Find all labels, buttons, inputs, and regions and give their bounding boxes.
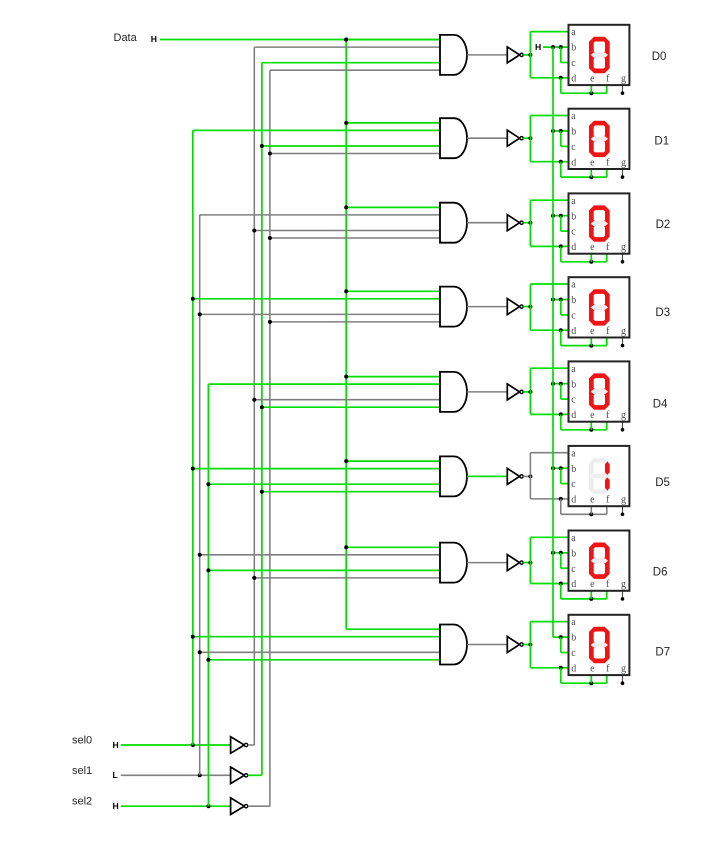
wire nsel1 input to gate U0 xyxy=(262,62,440,64)
wire channel 4 pin f stub xyxy=(606,422,608,430)
svg-text:d: d xyxy=(571,73,576,84)
junction pin g terminal D2 xyxy=(621,260,625,264)
svg-text:g: g xyxy=(621,157,626,168)
wire channel 0 d to bottom loop xyxy=(560,78,562,93)
wire channel 3 to pin d xyxy=(530,329,569,331)
wire nsel0 input to gate U2 xyxy=(254,230,440,232)
wire channel 4 pin e stub xyxy=(590,422,592,430)
digit segments D4 xyxy=(589,373,610,409)
junction pin g terminal D1 xyxy=(621,175,625,179)
junction data rail at gate U4 xyxy=(344,375,348,379)
junction pin g terminal D7 xyxy=(621,681,625,685)
wire display D6 pin g stub (unconnected) xyxy=(622,591,624,599)
wire gate U1 output to inverter xyxy=(467,137,507,139)
AND gate U5 xyxy=(440,456,467,496)
wire sel0 vertical rail xyxy=(192,130,194,745)
wire channel 7 to pin c xyxy=(561,652,570,654)
wire channel 7 to pin a xyxy=(530,621,569,623)
svg-text:c: c xyxy=(571,395,576,406)
wire channel 4 to pin a xyxy=(530,367,569,369)
wire not-sel1 inverter output elbow xyxy=(248,774,262,776)
wire channel 6 b to c loop xyxy=(560,553,562,568)
wire inverter U3N output xyxy=(523,306,530,308)
junction channel 7 d branch xyxy=(559,666,563,670)
svg-text:d: d xyxy=(571,663,576,674)
junction sel0 rail at gate U5 xyxy=(191,467,195,471)
svg-text:Data: Data xyxy=(114,32,138,44)
wire channel 7 pin f stub xyxy=(606,675,608,683)
AND gate U4 xyxy=(440,372,467,412)
junction sel1 rail bottom xyxy=(198,773,202,777)
wire segment rail to pin b D2 xyxy=(553,215,570,217)
junction channel 3 d branch xyxy=(559,328,563,332)
wire channel 5 pin f stub xyxy=(606,506,608,514)
wire nsel1 vertical rail xyxy=(261,63,263,776)
wire sel2 input to gate U6 xyxy=(208,569,440,571)
AND gate U1 xyxy=(440,118,467,158)
wire sel0 horizontal to inverter xyxy=(121,744,231,746)
svg-text:H: H xyxy=(151,34,157,44)
junction nsel0 rail at gate U6 xyxy=(252,576,256,580)
wire inverter U6N output xyxy=(523,562,530,564)
svg-text:d: d xyxy=(571,495,576,506)
wire channel 3 pin f stub xyxy=(606,338,608,346)
wire not-sel0 inverter output elbow xyxy=(248,744,255,746)
wire nsel0 input to gate U0 xyxy=(254,46,440,48)
AND gate U7 xyxy=(440,625,467,665)
wire segment rail to pin b D7 xyxy=(553,636,570,638)
wire segment rail to pin b D5 xyxy=(553,467,570,469)
wire sel2 input to gate U5 xyxy=(208,483,440,485)
wire nsel2 input to gate U1 xyxy=(270,153,440,155)
wire segment rail vertical xyxy=(552,47,554,637)
junction channel 2 d branch xyxy=(559,244,563,248)
wire channel 3 pin e stub xyxy=(590,338,592,346)
wire channel 5 bottom horizontal xyxy=(561,513,607,515)
inverter U2N xyxy=(507,215,523,231)
svg-text:D4: D4 xyxy=(653,399,668,411)
junction channel 3 pin e xyxy=(589,344,593,348)
junction segment rail at D5 xyxy=(551,466,555,470)
svg-text:g: g xyxy=(621,663,626,674)
wire channel 2 vertical a-d xyxy=(529,200,531,246)
wire display D1 pin g stub (unconnected) xyxy=(622,169,624,177)
junction sel2 rail at gate U6 xyxy=(206,568,210,572)
wire channel 6 pin f stub xyxy=(606,591,608,599)
wire sel1 input to gate U7 xyxy=(200,651,440,653)
junction channel 6 d branch xyxy=(559,582,563,586)
wire channel 1 b to c loop xyxy=(560,131,562,146)
wire inverter U7N output xyxy=(523,644,530,646)
svg-text:b: b xyxy=(571,548,576,559)
wire channel 5 pin e stub xyxy=(590,506,592,514)
junction channel 5 output node xyxy=(528,474,532,478)
svg-text:D6: D6 xyxy=(653,567,668,579)
junction channel 6 pin e xyxy=(589,597,593,601)
junction segment rail at D6 xyxy=(551,551,555,555)
svg-text:H: H xyxy=(113,801,119,811)
wire data input to gate U2 xyxy=(346,206,440,208)
svg-text:c: c xyxy=(571,142,576,153)
AND gate U6 xyxy=(440,543,467,583)
svg-text:b: b xyxy=(571,633,576,644)
digit segments D1 xyxy=(589,121,610,157)
wire channel 1 d to bottom loop xyxy=(560,162,562,177)
junction data rail at gate U1 xyxy=(344,121,348,125)
wire channel 5 d to bottom loop xyxy=(560,499,562,514)
display D6 seven-segment xyxy=(569,531,630,591)
junction nsel1 rail at gate U4 xyxy=(260,405,264,409)
wire segment rail to pin b D4 xyxy=(553,383,570,385)
display D2 seven-segment xyxy=(569,193,630,253)
junction channel 0 output node xyxy=(528,53,532,57)
svg-text:b: b xyxy=(571,379,576,390)
svg-text:c: c xyxy=(571,311,576,322)
wire channel 3 vertical a-d xyxy=(529,284,531,330)
wire nsel1 input to gate U5 xyxy=(262,491,440,493)
wire nsel2 input to gate U2 xyxy=(270,237,440,239)
display D0 seven-segment xyxy=(569,25,630,85)
wire nsel2 input to gate U0 xyxy=(270,69,440,71)
junction channel 7 output node xyxy=(528,643,532,647)
svg-text:g: g xyxy=(621,495,626,506)
junction sel2 rail at gate U5 xyxy=(206,482,210,486)
wire data input to gate U0 xyxy=(346,39,440,41)
svg-text:b: b xyxy=(571,464,576,475)
wire sel1 horizontal to inverter xyxy=(121,774,231,776)
wire channel 7 pin e stub xyxy=(590,675,592,683)
svg-text:e: e xyxy=(590,495,595,506)
wire channel 2 pin f stub xyxy=(606,254,608,262)
wire gate U0 output to inverter xyxy=(467,54,507,56)
wire nsel0 input to gate U6 xyxy=(254,577,440,579)
wire gate U4 output to inverter xyxy=(467,391,507,393)
wire channel 3 to pin c xyxy=(561,314,570,316)
wire sel1 vertical rail xyxy=(199,215,201,775)
wire sel1 input to gate U2 xyxy=(200,214,440,216)
junction channel 4 d branch xyxy=(559,412,563,416)
wire sel2 horizontal to inverter xyxy=(121,805,231,807)
wire channel 4 bottom horizontal xyxy=(561,429,607,431)
svg-text:d: d xyxy=(571,326,576,337)
wire channel 1 to pin a xyxy=(530,115,569,117)
junction channel 1 d branch xyxy=(559,160,563,164)
display D1 seven-segment xyxy=(569,109,630,169)
svg-text:D1: D1 xyxy=(654,135,669,147)
junction sel1 rail at gate U6 xyxy=(198,553,202,557)
wire sel0 input to gate U7 xyxy=(193,636,440,638)
junction segment rail top xyxy=(551,45,555,49)
svg-text:b: b xyxy=(571,211,576,222)
wire sel2 vertical rail xyxy=(207,384,209,806)
wire data input to gate U5 xyxy=(346,460,440,462)
svg-text:c: c xyxy=(571,648,576,659)
junction channel 4 output node xyxy=(528,390,532,394)
wire sel1 input to gate U6 xyxy=(200,554,440,556)
wire display D0 pin g stub (unconnected) xyxy=(622,85,624,93)
wire gate U7 output to inverter xyxy=(467,644,507,646)
junction nsel2 rail at gate U1 xyxy=(268,152,272,156)
svg-text:a: a xyxy=(571,364,576,375)
digit segments D3 xyxy=(589,289,610,325)
svg-text:D3: D3 xyxy=(655,307,670,319)
svg-text:d: d xyxy=(571,157,576,168)
wire sel1 input to gate U3 xyxy=(200,313,440,315)
wire data input to gate U3 xyxy=(346,290,440,292)
junction channel 0 d branch xyxy=(559,76,563,80)
wire channel 6 d to bottom loop xyxy=(560,584,562,599)
svg-text:e: e xyxy=(590,410,595,421)
wire channel 7 bottom horizontal xyxy=(561,682,607,684)
junction sel0 rail at gate U7 xyxy=(191,635,195,639)
wire channel 2 bottom horizontal xyxy=(561,261,607,263)
wire channel 3 d to bottom loop xyxy=(560,330,562,345)
junction sel0 rail at gate U3 xyxy=(191,297,195,301)
wire channel 3 to pin a xyxy=(530,283,569,285)
junction nsel1 rail at gate U1 xyxy=(260,144,264,148)
wire channel 2 pin e stub xyxy=(590,254,592,262)
junction channel 3 output node xyxy=(528,305,532,309)
display D4 seven-segment xyxy=(569,361,630,421)
wire channel 0 pin e stub xyxy=(590,85,592,93)
wire segment rail to pin b D6 xyxy=(553,552,570,554)
display D5 seven-segment xyxy=(569,446,630,506)
svg-text:b: b xyxy=(571,295,576,306)
svg-text:b: b xyxy=(571,127,576,138)
wire channel 7 b to c loop xyxy=(560,637,562,652)
junction segment rail at D2 xyxy=(551,214,555,218)
inverter U9 for sel0 xyxy=(231,737,248,754)
inverter U5N xyxy=(507,468,523,484)
wire inverter U2N output xyxy=(523,222,530,224)
wire inverter U1N output xyxy=(523,137,530,139)
display D3 seven-segment xyxy=(569,277,630,337)
wire channel 7 to pin d xyxy=(530,667,569,669)
junction Data rail top xyxy=(344,38,348,42)
svg-text:sel0: sel0 xyxy=(72,735,92,747)
junction channel 6 output node xyxy=(528,561,532,565)
wire display D4 pin g stub (unconnected) xyxy=(622,422,624,430)
junction data rail at gate U5 xyxy=(344,459,348,463)
wire sel0 input to gate U1 xyxy=(193,129,440,131)
wire channel 5 vertical a-d xyxy=(529,453,531,499)
junction channel 4 b branch xyxy=(559,382,563,386)
wire channel 4 to pin c xyxy=(561,398,570,400)
svg-text:D2: D2 xyxy=(656,219,671,231)
wire channel 6 to pin d xyxy=(530,583,569,585)
digit segments D2 xyxy=(589,205,610,241)
wire gate U2 output to inverter xyxy=(467,222,507,224)
wire channel 2 to pin a xyxy=(530,199,569,201)
wire channel 0 to pin c xyxy=(561,62,570,64)
wire channel 4 d to bottom loop xyxy=(560,414,562,429)
svg-text:g: g xyxy=(621,326,626,337)
wire nsel0 input to gate U4 xyxy=(254,399,440,401)
junction segment rail at D1 xyxy=(551,129,555,133)
junction nsel2 rail at gate U2 xyxy=(268,236,272,240)
wire data input to gate U7 xyxy=(346,628,440,630)
junction data rail at gate U0 xyxy=(344,38,348,42)
wire nsel2 vertical rail xyxy=(269,70,271,806)
junction channel 2 b branch xyxy=(559,214,563,218)
junction nsel2 rail at gate U3 xyxy=(268,320,272,324)
wire channel 6 to pin c xyxy=(561,567,570,569)
svg-text:e: e xyxy=(590,326,595,337)
digit segments D7 xyxy=(589,627,610,663)
junction nsel0 rail at gate U2 xyxy=(252,229,256,233)
svg-text:a: a xyxy=(571,448,576,459)
svg-text:d: d xyxy=(571,579,576,590)
wire channel 1 bottom horizontal xyxy=(561,176,607,178)
wire inverter U0N output xyxy=(523,54,530,56)
junction sel1 rail at gate U3 xyxy=(198,312,202,316)
junction channel 6 b branch xyxy=(559,551,563,555)
wire channel 2 d to bottom loop xyxy=(560,246,562,261)
junction sel2 rail bottom xyxy=(206,804,210,808)
wire channel 5 to pin c xyxy=(561,483,570,485)
wire channel 7 d to bottom loop xyxy=(560,668,562,683)
wire inverter U5N output xyxy=(523,475,530,477)
svg-text:a: a xyxy=(571,280,576,291)
wire channel 7 vertical a-d xyxy=(529,622,531,668)
svg-text:g: g xyxy=(621,73,626,84)
junction sel0 rail bottom xyxy=(191,743,195,747)
junction sel1 rail at gate U7 xyxy=(198,650,202,654)
junction channel 7 pin e xyxy=(589,681,593,685)
junction pin g terminal D6 xyxy=(621,597,625,601)
wire channel 2 to pin d xyxy=(530,245,569,247)
wire data input to gate U4 xyxy=(346,376,440,378)
digit segments D5 xyxy=(589,458,610,494)
junction channel 1 b branch xyxy=(559,129,563,133)
svg-text:e: e xyxy=(590,73,595,84)
wire data input to gate U6 xyxy=(346,546,440,548)
svg-text:g: g xyxy=(621,410,626,421)
svg-text:c: c xyxy=(571,227,576,238)
wire channel 1 pin e stub xyxy=(590,169,592,177)
junction segment rail at D4 xyxy=(551,382,555,386)
wire channel 0 to pin a xyxy=(530,31,569,33)
junction channel 4 pin e xyxy=(589,428,593,432)
wire gate U3 output to inverter xyxy=(467,306,507,308)
svg-text:D5: D5 xyxy=(655,477,670,489)
wire channel 0 to pin d xyxy=(530,77,569,79)
svg-text:d: d xyxy=(571,242,576,253)
wire channel 2 to pin c xyxy=(561,230,570,232)
inverter U6N xyxy=(507,555,523,571)
wire channel 6 bottom horizontal xyxy=(561,598,607,600)
AND gate U0 xyxy=(440,35,467,75)
svg-text:c: c xyxy=(571,58,576,69)
junction sel2 rail at gate U7 xyxy=(206,658,210,662)
wire channel 3 b to c loop xyxy=(560,300,562,315)
svg-text:e: e xyxy=(590,663,595,674)
junction channel 1 output node xyxy=(528,136,532,140)
wire channel 5 to pin a xyxy=(530,452,569,454)
wire channel 4 to pin d xyxy=(530,413,569,415)
svg-text:b: b xyxy=(571,43,576,54)
wire channel 0 pin f stub xyxy=(606,85,608,93)
svg-text:e: e xyxy=(590,579,595,590)
svg-text:a: a xyxy=(571,27,576,38)
wire display D7 pin g stub (unconnected) xyxy=(622,675,624,683)
wire not-sel2 inverter output elbow xyxy=(248,805,270,807)
junction pin g terminal D5 xyxy=(621,513,625,517)
wire gate U6 output to inverter xyxy=(467,562,507,564)
AND gate U3 xyxy=(440,287,467,327)
display D7 seven-segment xyxy=(569,615,630,675)
inverter U10 for sel1 xyxy=(231,767,248,784)
wire sel0 input to gate U3 xyxy=(193,298,440,300)
svg-text:a: a xyxy=(571,533,576,544)
junction channel 5 pin e xyxy=(589,512,593,516)
wire channel 6 vertical a-d xyxy=(529,537,531,583)
junction channel 1 pin e xyxy=(589,175,593,179)
wire channel 2 b to c loop xyxy=(560,216,562,231)
svg-text:c: c xyxy=(571,479,576,490)
inverter U0N xyxy=(507,47,523,63)
wire channel 0 vertical a-d xyxy=(529,32,531,78)
junction data rail at gate U3 xyxy=(344,289,348,293)
svg-text:sel2: sel2 xyxy=(72,796,92,808)
wire Data vertical rail xyxy=(345,40,347,630)
wire segment rail to pin b D3 xyxy=(553,299,570,301)
inverter U4N xyxy=(507,384,523,400)
wire channel 5 b to c loop xyxy=(560,468,562,483)
wire nsel2 input to gate U3 xyxy=(270,321,440,323)
svg-text:g: g xyxy=(621,242,626,253)
wire channel 6 pin e stub xyxy=(590,591,592,599)
wire sel2 input to gate U7 xyxy=(208,659,440,661)
svg-text:g: g xyxy=(621,579,626,590)
junction channel 2 pin e xyxy=(589,260,593,264)
wire nsel1 input to gate U4 xyxy=(262,406,440,408)
wire channel 3 bottom horizontal xyxy=(561,345,607,347)
wire display D5 pin g stub (unconnected) xyxy=(622,506,624,514)
svg-text:sel1: sel1 xyxy=(72,765,92,777)
svg-text:D0: D0 xyxy=(652,51,667,63)
AND gate U2 xyxy=(440,203,467,243)
wire channel 0 b to c loop xyxy=(560,47,562,62)
wire Data horizontal to gate0 input 1 xyxy=(160,39,440,41)
wire channel 6 to pin a xyxy=(530,536,569,538)
svg-text:H: H xyxy=(113,740,119,750)
wire channel 4 b to c loop xyxy=(560,384,562,399)
wire channel 0 bottom horizontal xyxy=(561,92,607,94)
junction channel 3 b branch xyxy=(559,298,563,302)
svg-text:d: d xyxy=(571,410,576,421)
junction data rail at gate U2 xyxy=(344,205,348,209)
wire channel 1 to pin d xyxy=(530,161,569,163)
junction pin g terminal D0 xyxy=(621,91,625,95)
wire channel 1 pin f stub xyxy=(606,169,608,177)
digit segments D6 xyxy=(589,543,610,579)
junction pin g terminal D4 xyxy=(621,428,625,432)
junction channel 5 d branch xyxy=(559,497,563,501)
wire channel 1 vertical a-d xyxy=(529,116,531,162)
junction channel 2 output node xyxy=(528,221,532,225)
wire segment rail to pin b D1 xyxy=(553,130,570,132)
wire nsel1 input to gate U1 xyxy=(262,145,440,147)
wire sel2 input to gate U4 xyxy=(208,383,440,385)
junction channel 0 pin e xyxy=(589,91,593,95)
wire nsel0 vertical rail xyxy=(253,47,255,745)
inverter U3N xyxy=(507,299,523,315)
wire channel 1 to pin c xyxy=(561,145,570,147)
svg-text:e: e xyxy=(590,242,595,253)
svg-text:D7: D7 xyxy=(655,647,670,659)
svg-text:H: H xyxy=(535,42,541,52)
